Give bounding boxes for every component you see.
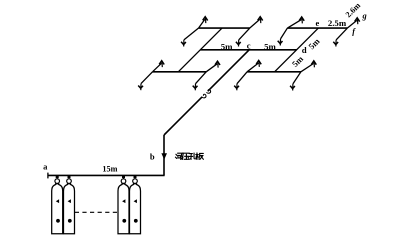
- svg-text:b: b: [150, 151, 155, 161]
- wire distribution diagonal left (row3-left mid to c-header left end to H1 mid): [178, 28, 222, 72]
- outlet branch with arrows at H1 right end: [236, 17, 263, 47]
- wire header pipe H4 row3-left: [153, 71, 207, 73]
- gas cylinder 2 body: [64, 184, 75, 234]
- svg-text:2.6m: 2.6m: [344, 1, 363, 20]
- wire header pipe H5 row3-right: [247, 71, 301, 73]
- gas cylinder 3 valve: [121, 175, 126, 183]
- svg-text:f: f: [352, 27, 356, 36]
- flow arrow at orifice plate (filled triangle down): [161, 153, 167, 159]
- outlet branch with arrows at H1 left end: [181, 17, 208, 47]
- wire header pipe H3 c-header: [200, 49, 296, 51]
- outlet branch with arrows at H5 right end: [290, 61, 316, 91]
- outlet branch with arrows at H5 left end: [234, 61, 261, 91]
- gas cylinder 3 body: [118, 184, 129, 234]
- gas cylinder 4 body: [130, 184, 141, 234]
- gas cylinder 1 upper mark: [56, 199, 59, 203]
- wire distribution diagonal right (row3-right mid through d to e): [275, 28, 319, 72]
- orifice plate label (jian ya kong ban) drawn glyphs: [175, 153, 203, 160]
- svg-text:5m: 5m: [221, 42, 233, 52]
- gas cylinder 2 valve: [67, 175, 72, 183]
- outlet branch with arrows at H4 right end: [193, 61, 220, 90]
- node label a: [43, 161, 48, 171]
- node label f: [352, 27, 356, 36]
- gas cylinder 1 body: [52, 184, 63, 234]
- node label b: [150, 151, 155, 161]
- gas cylinder 2 lower dot: [68, 219, 72, 223]
- outlet branch with arrows at H2 right end (f-g, 2.6m stub): [333, 18, 359, 47]
- gas cylinder 1 valve: [55, 175, 60, 183]
- dimension label 5m (c-header left): [221, 42, 233, 52]
- wire manifold horizontal pipe a-b: [48, 174, 165, 176]
- dimension label 15m: [102, 165, 117, 174]
- dimension label 2.5m: [328, 18, 347, 28]
- node label e: [315, 19, 319, 28]
- dimension label 2.6m (slanted): [344, 1, 363, 20]
- dimension label 5m (d to row3, slanted): [290, 53, 306, 69]
- svg-text:5m: 5m: [264, 42, 276, 52]
- gas cylinder 4 valve: [133, 175, 138, 183]
- gas cylinder 4 upper mark: [134, 199, 137, 203]
- gas cylinder 4 lower dot: [134, 219, 138, 223]
- dashed continuation line between cylinder groups: [75, 211, 118, 213]
- gas cylinder 2 upper mark: [68, 199, 71, 203]
- node label c: [247, 41, 251, 51]
- outlet branch with arrows at H2 left end: [278, 17, 305, 46]
- svg-text:g: g: [362, 12, 367, 21]
- wire header pipe H2 row1-right: [287, 27, 347, 29]
- wire header pipe H1 row1-left: [199, 27, 250, 29]
- pipe break symbol S-hooks: [202, 90, 211, 98]
- wire riser diagonal lower segment (from bend to break): [164, 97, 202, 135]
- wire riser diagonal upper segment (from break to node c): [208, 50, 249, 91]
- svg-text:d: d: [302, 45, 307, 55]
- node label g: [362, 12, 367, 21]
- wire riser vertical at b: [163, 135, 165, 175]
- svg-text:15m: 15m: [102, 165, 117, 174]
- svg-text:2.5m: 2.5m: [328, 18, 347, 28]
- manifold end cap tick at a: [47, 173, 49, 179]
- outlet branch with arrows at H4 left end: [138, 61, 164, 90]
- gas cylinder 3 lower dot: [122, 219, 126, 223]
- svg-text:c: c: [247, 41, 251, 51]
- svg-text:e: e: [315, 19, 319, 28]
- dimension label 5m (c-header right): [264, 42, 276, 52]
- gas cylinder 3 upper mark: [122, 199, 125, 203]
- dimension label 5m (d to e, slanted): [306, 36, 322, 52]
- svg-text:5m: 5m: [290, 53, 306, 69]
- node label d: [302, 45, 307, 55]
- gas cylinder 1 lower dot: [56, 219, 60, 223]
- svg-text:a: a: [43, 161, 48, 171]
